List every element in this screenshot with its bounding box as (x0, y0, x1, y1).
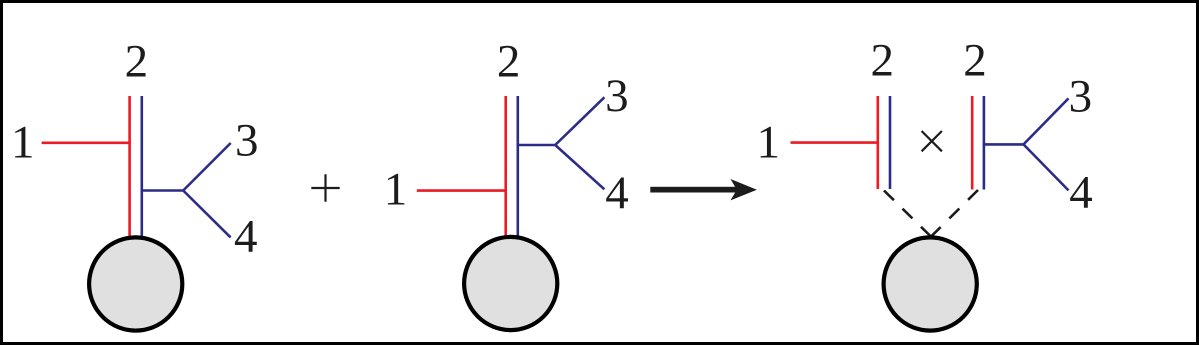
svg-text:4: 4 (1069, 167, 1093, 219)
svg-text:3: 3 (605, 70, 629, 122)
svg-text:1: 1 (757, 116, 781, 168)
svg-text:3: 3 (235, 115, 259, 167)
svg-text:2: 2 (125, 35, 149, 87)
svg-text:4: 4 (605, 167, 629, 219)
svg-text:1: 1 (384, 164, 408, 216)
svg-text:3: 3 (1069, 70, 1093, 122)
svg-text:4: 4 (234, 211, 258, 263)
svg-text:2: 2 (963, 35, 987, 87)
svg-text:2: 2 (497, 36, 521, 88)
svg-text:1: 1 (11, 117, 35, 169)
svg-text:2: 2 (871, 35, 895, 87)
